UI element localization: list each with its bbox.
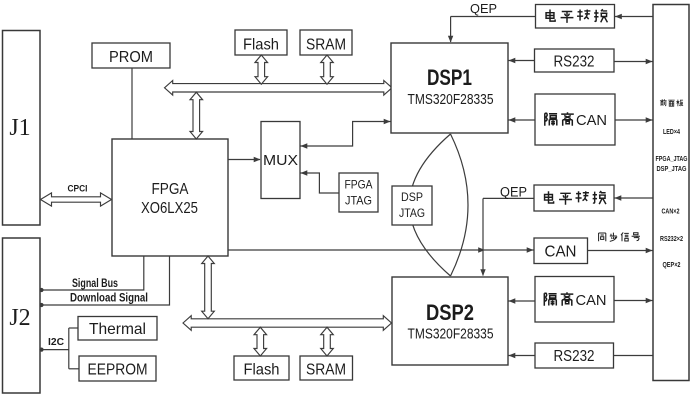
wire DSP2 to RS232 bottom [508, 353, 535, 358]
label level shifter top text [546, 9, 607, 23]
svg-text:Download Signal: Download Signal [70, 293, 148, 305]
svg-text:RS232×2: RS232×2 [660, 236, 683, 243]
svg-text:MUX: MUX [263, 152, 298, 169]
DSP2 TMS320F28335 [392, 277, 508, 365]
svg-text:JTAG: JTAG [345, 194, 372, 208]
FPGA JTAG header [339, 173, 378, 212]
SRAM memory bottom [300, 356, 353, 380]
level shifter top (dianping zhuanhuan) [536, 5, 615, 29]
JTAG chain lens arcs [410, 134, 469, 276]
PROM memory [92, 43, 170, 68]
wire RS232 bottom to front panel [614, 355, 654, 357]
svg-text:LED×4: LED×4 [663, 129, 680, 136]
svg-text:Flash: Flash [243, 37, 279, 54]
svg-text:J1: J1 [9, 115, 30, 141]
MUX [261, 122, 300, 199]
svg-text:I2C: I2C [48, 337, 64, 348]
label RS232x2 [660, 236, 683, 243]
svg-text:JTAG: JTAG [399, 206, 425, 220]
DSP1 TMS320F28335 [391, 43, 508, 133]
svg-text:DSP_JTAG: DSP_JTAG [657, 166, 687, 173]
svg-text:Signal Bus: Signal Bus [72, 278, 118, 290]
wire MUX to FPGA JTAG [301, 170, 340, 193]
RS232 top [535, 49, 615, 72]
bus top memory bus [165, 81, 393, 96]
Flash memory top [235, 30, 287, 55]
svg-text:SRAM: SRAM [306, 37, 346, 54]
svg-text:RS232: RS232 [554, 54, 595, 71]
wire FPGA to CAN [228, 247, 534, 252]
wire isolated CAN top to front panel [615, 117, 653, 122]
label QEP top [470, 1, 497, 16]
SRAM memory top [300, 30, 352, 55]
connector J1 [3, 31, 41, 226]
svg-text:QEP×2: QEP×2 [663, 262, 681, 269]
label CANx2 [662, 209, 680, 216]
label QEPx2 [663, 262, 681, 269]
label LEDx4 [663, 129, 680, 136]
FPGA XO6LX25 [112, 139, 228, 256]
label level shifter bottom text [545, 191, 606, 205]
wire FPGA to MUX [228, 157, 261, 162]
EEPROM [79, 356, 156, 381]
svg-text:FPGA: FPGA [152, 181, 189, 198]
svg-text:Flash: Flash [244, 362, 280, 379]
Thermal sensor [78, 317, 157, 341]
label front panel text [660, 99, 683, 106]
svg-text:QEP: QEP [470, 1, 497, 16]
svg-text:EEPROM: EEPROM [88, 362, 148, 379]
bus bottom memory bus [183, 316, 392, 331]
wire DSP2 to isolated CAN bottom [508, 298, 535, 303]
bus link FPGA to top bus [190, 92, 203, 139]
svg-text:TMS320F28335: TMS320F28335 [408, 327, 494, 343]
bus link Flash bottom [254, 327, 267, 356]
svg-text:TMS320F28335: TMS320F28335 [408, 92, 494, 108]
RS232 bottom [535, 343, 614, 368]
wire RS232 top to front panel [614, 59, 653, 64]
svg-text:XO6LX25: XO6LX25 [141, 200, 198, 217]
label isolated CAN bottom text [544, 292, 606, 309]
svg-text:CAN: CAN [545, 244, 577, 261]
isolated CAN top (geli CAN) [535, 94, 615, 145]
svg-text:Thermal: Thermal [89, 321, 146, 338]
svg-text:J2: J2 [9, 305, 30, 331]
label I2C [48, 337, 64, 348]
svg-text:DSP2: DSP2 [426, 300, 474, 325]
svg-text:FPGA: FPGA [345, 178, 373, 192]
wire Signal Bus J2 to FPGA [39, 256, 143, 292]
connector J2 [3, 238, 41, 393]
Flash memory bottom [234, 356, 289, 380]
front panel (qianmianban) [653, 5, 689, 381]
label Signal Bus [72, 278, 118, 290]
svg-text:CAN: CAN [576, 292, 607, 309]
bus link Flash top [255, 55, 268, 84]
label CPCI [68, 184, 88, 195]
wire Download Signal J2 to FPGA [39, 256, 169, 307]
label Download Signal [70, 293, 148, 305]
label sync signal (tongbu xinhao) [599, 232, 640, 241]
svg-text:DSP1: DSP1 [427, 65, 472, 90]
wire level shifter bottom to front panel [614, 195, 653, 200]
svg-text:CAN: CAN [576, 112, 607, 129]
wire PROM to FPGA [131, 68, 133, 139]
svg-text:CPCI: CPCI [68, 184, 88, 195]
wire QEP level shifter bottom to DSP2 [480, 198, 534, 276]
wire isolated CAN bottom to front panel [614, 298, 653, 303]
label QEP bottom [500, 185, 527, 200]
wire CAN to front panel sync [588, 248, 654, 253]
svg-text:FPGA_JTAG: FPGA_JTAG [656, 156, 688, 163]
bus link FPGA to bottom bus [202, 256, 215, 319]
level shifter bottom (dianping zhuanhuan) [534, 185, 614, 211]
DSP JTAG header [392, 186, 432, 225]
svg-text:QEP: QEP [500, 185, 527, 200]
label isolated CAN top text [545, 112, 607, 129]
svg-text:RS232: RS232 [554, 348, 595, 365]
label FPGA_JTAG [656, 156, 688, 163]
wire DSP1 to RS232 top [508, 58, 535, 63]
svg-text:CAN×2: CAN×2 [662, 209, 680, 216]
svg-text:PROM: PROM [109, 49, 153, 66]
wire DSP1 to isolated CAN top [508, 117, 535, 122]
bus CPCI double arrow J1 to FPGA [41, 193, 112, 206]
svg-text:SRAM: SRAM [306, 362, 346, 379]
wire QEP DSP1 to level shifter top [448, 17, 535, 43]
label DSP_JTAG [657, 166, 687, 173]
wire I2C J2 to Thermal and EEPROM [39, 328, 79, 369]
wire MUX to DSP1 [301, 119, 391, 149]
CAN controller [534, 238, 588, 264]
bus link SRAM top [321, 55, 334, 84]
svg-text:DSP: DSP [401, 190, 423, 204]
wire level shifter top to front panel [615, 14, 654, 19]
isolated CAN bottom (geli CAN) [535, 277, 614, 323]
bus link SRAM bottom [321, 327, 334, 356]
